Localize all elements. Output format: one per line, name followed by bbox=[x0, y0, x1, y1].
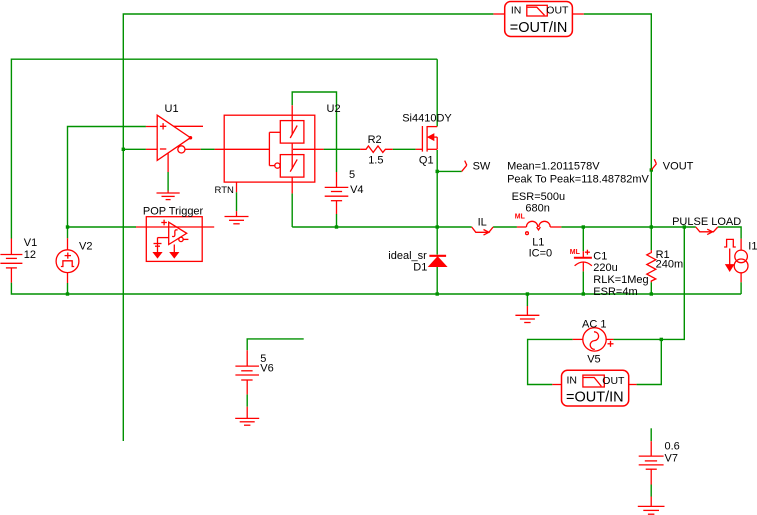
svg-text:240m: 240m bbox=[656, 259, 684, 271]
svg-text:RLK=1Meg: RLK=1Meg bbox=[593, 274, 648, 286]
wire pulse-probe to I1 corner bbox=[718, 227, 741, 239]
wire bottom ground rail bbox=[11, 283, 741, 294]
resistor R1 bbox=[647, 250, 656, 282]
svg-text:12: 12 bbox=[24, 249, 36, 261]
svg-text:SW: SW bbox=[473, 161, 491, 173]
wire U1 out to U2 bbox=[201, 148, 215, 150]
wire IL-to-L1 bbox=[493, 226, 517, 228]
svg-text:V5: V5 bbox=[587, 354, 600, 366]
svg-text:ESR=4m: ESR=4m bbox=[593, 286, 637, 298]
svg-text:=OUT/IN: =OUT/IN bbox=[510, 20, 568, 36]
svg-text:OUT: OUT bbox=[602, 375, 625, 387]
wire RTN to ground bbox=[236, 192, 238, 211]
wire U2 bottom pin bbox=[291, 193, 293, 227]
wire L1 to pulse-probe bbox=[561, 226, 696, 228]
wire SW tag stub bbox=[437, 170, 462, 172]
switch block U2 bbox=[215, 105, 324, 193]
svg-text:C1: C1 bbox=[593, 251, 607, 263]
node dot SW cross bbox=[436, 225, 439, 228]
wire V2 to opamp plus bbox=[68, 127, 146, 239]
source V2 bbox=[56, 238, 79, 283]
svg-text:ideal_sr: ideal_sr bbox=[388, 250, 427, 262]
svg-text:0.6: 0.6 bbox=[665, 441, 680, 453]
node dot V2 rail bbox=[66, 292, 69, 295]
node dot V4 SW bbox=[335, 225, 338, 228]
wire V6 top bbox=[247, 339, 304, 350]
ground U1 bbox=[157, 191, 180, 200]
resistor R2 bbox=[360, 146, 393, 152]
svg-text:I1: I1 bbox=[748, 241, 757, 253]
wire V7 bottom bbox=[650, 485, 652, 497]
svg-text:Q1: Q1 bbox=[419, 155, 434, 167]
VOUT net tag bbox=[651, 159, 656, 170]
wire Q1 drain bbox=[436, 59, 438, 126]
svg-text:ESR=500u: ESR=500u bbox=[512, 191, 566, 203]
wire V2 bottom bbox=[67, 283, 69, 294]
wire V5 loop right bbox=[613, 227, 684, 339]
battery V7 bbox=[639, 441, 664, 484]
node dot C1 rail bbox=[582, 292, 585, 295]
svg-text:V2: V2 bbox=[79, 240, 92, 252]
wire mid ground stub bbox=[526, 294, 528, 306]
wire SW node bbox=[292, 226, 472, 228]
svg-text:IN: IN bbox=[567, 374, 578, 386]
wire V6 bottom bbox=[246, 394, 248, 406]
wire V4 bottom to SW bbox=[336, 214, 338, 227]
svg-text:VOUT: VOUT bbox=[663, 161, 694, 173]
wire V5 loop left bbox=[528, 339, 573, 384]
source V5 bbox=[573, 328, 614, 351]
wire V2 to POP trigger bbox=[68, 226, 137, 228]
wire R1 bottom bbox=[650, 282, 652, 294]
battery V1 bbox=[0, 239, 22, 283]
wire V5 out tap bbox=[637, 339, 662, 384]
node dot gnd rail bbox=[526, 292, 529, 295]
svg-text:RTN: RTN bbox=[215, 185, 234, 196]
svg-text:1.5: 1.5 bbox=[368, 154, 383, 166]
svg-text:V7: V7 bbox=[665, 453, 678, 465]
svg-text:PULSE LOAD: PULSE LOAD bbox=[672, 216, 741, 228]
node dot C1 top bbox=[582, 225, 585, 228]
wire opamp minus input bbox=[123, 148, 146, 150]
svg-text:Si4410DY: Si4410DY bbox=[402, 113, 452, 125]
svg-text:U1: U1 bbox=[165, 103, 179, 115]
svg-text:ML: ML bbox=[570, 249, 581, 256]
svg-text:IL: IL bbox=[478, 217, 487, 229]
node dot V2 top bbox=[66, 225, 69, 228]
svg-text:POP Trigger: POP Trigger bbox=[143, 205, 204, 217]
battery V4 bbox=[325, 172, 349, 214]
svg-text:V1: V1 bbox=[24, 237, 37, 249]
wire D1 anode to rail bbox=[436, 266, 438, 294]
transfer probe bottom bbox=[552, 370, 636, 406]
wire input rail y59 bbox=[11, 59, 437, 238]
wire C1 bottom bbox=[582, 271, 584, 294]
wire V7 top bbox=[650, 428, 652, 441]
diode D1 bbox=[429, 256, 446, 266]
wire top rail y14 bbox=[123, 14, 493, 441]
svg-text:V4: V4 bbox=[350, 184, 363, 196]
svg-text:ML: ML bbox=[515, 214, 526, 221]
pulse-load probe bbox=[696, 227, 718, 235]
wire Q1 source to D1 bbox=[436, 150, 438, 255]
wire VOUT vertical bbox=[584, 14, 652, 250]
svg-text:OUT: OUT bbox=[546, 5, 569, 17]
svg-text:680n: 680n bbox=[525, 203, 549, 215]
node dot SW tag bbox=[436, 170, 439, 173]
op-amp U1 bbox=[146, 115, 203, 172]
svg-text:=OUT/IN: =OUT/IN bbox=[566, 390, 624, 406]
inductor L1 bbox=[517, 221, 561, 234]
svg-text:V6: V6 bbox=[260, 363, 273, 375]
wire I1 bottom bbox=[740, 282, 742, 294]
svg-text:AC 1: AC 1 bbox=[582, 318, 606, 330]
SW net tag bbox=[462, 161, 467, 172]
wire R2 to Q1 gate bbox=[393, 148, 416, 150]
node dot R1 rail bbox=[650, 292, 653, 295]
node dot V5 branch bbox=[683, 225, 686, 228]
svg-text:Mean=1.2011578V: Mean=1.2011578V bbox=[507, 161, 600, 173]
capacitor C1 bbox=[574, 250, 592, 272]
ground RTN bbox=[225, 211, 249, 224]
svg-text:IN: IN bbox=[511, 5, 522, 17]
mosfet Q1 bbox=[416, 126, 438, 152]
POP trigger block bbox=[136, 217, 214, 262]
wire U2 top pin over box bbox=[292, 92, 336, 172]
ground V7 bbox=[638, 497, 665, 515]
node dot minus input bbox=[122, 148, 125, 151]
svg-text:5: 5 bbox=[349, 169, 355, 181]
wire U1 ground bbox=[167, 172, 169, 191]
svg-text:Peak To Peak=118.48782mV: Peak To Peak=118.48782mV bbox=[507, 174, 649, 186]
node dot D1 rail bbox=[436, 292, 439, 295]
svg-text:IC=0: IC=0 bbox=[529, 248, 553, 260]
wire C1 top bbox=[582, 227, 584, 251]
ground mid bbox=[515, 306, 539, 323]
IL current probe bbox=[472, 227, 493, 235]
node dot VOUT bbox=[650, 168, 653, 171]
wire U2 out to R2 bbox=[324, 148, 361, 150]
current source I1 bbox=[724, 239, 748, 283]
svg-text:220u: 220u bbox=[593, 262, 617, 274]
svg-text:U2: U2 bbox=[327, 103, 341, 115]
svg-text:D1: D1 bbox=[413, 262, 427, 274]
node dot R1 top bbox=[650, 225, 653, 228]
transfer probe top bbox=[493, 2, 583, 37]
svg-text:R2: R2 bbox=[368, 134, 382, 146]
ground V6 bbox=[235, 407, 259, 426]
node dot V5 out bbox=[660, 338, 663, 341]
battery V6 bbox=[235, 350, 259, 394]
